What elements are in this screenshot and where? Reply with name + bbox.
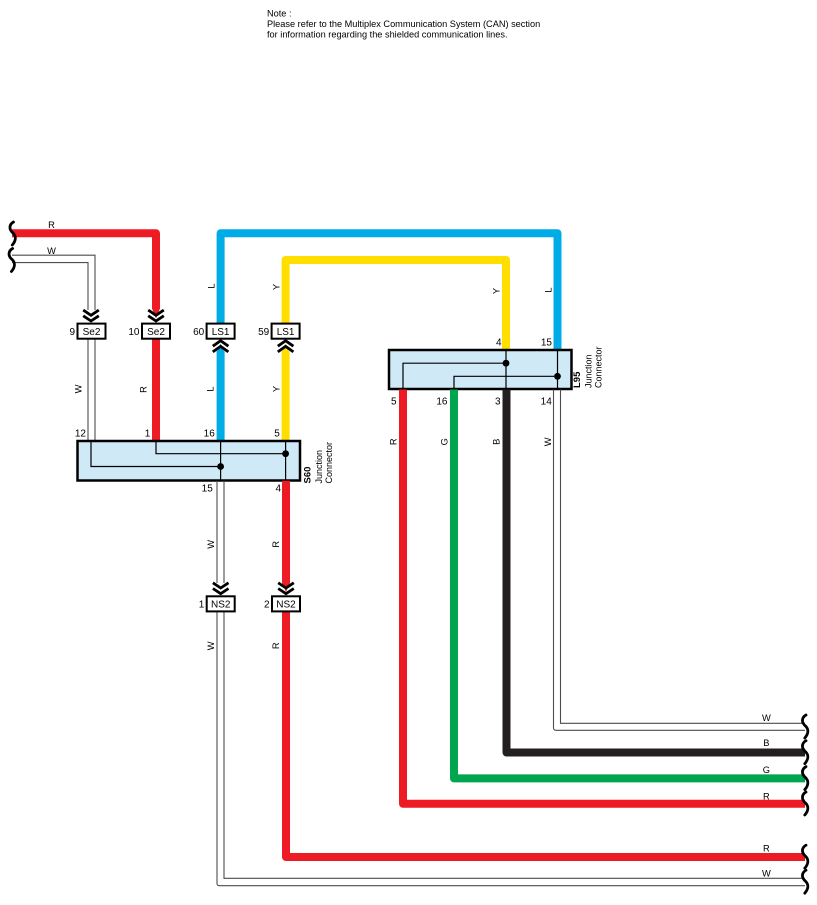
wire R main: left entry to Se2(10) <box>12 233 156 309</box>
wire Y: LS1(59) to S60 pin 5 <box>282 351 290 442</box>
svg-text:G: G <box>763 765 770 775</box>
svg-text:B: B <box>763 738 769 748</box>
svg-text:Please refer to the Multiplex: Please refer to the Multiplex Communicat… <box>267 19 540 29</box>
svg-text:R: R <box>389 438 399 445</box>
svg-text:R: R <box>48 220 55 230</box>
wire R tip at Se2(10) chevron <box>152 309 160 319</box>
svg-text:R: R <box>271 541 281 548</box>
junction connector S60: box <box>78 441 301 481</box>
svg-text:L: L <box>207 283 217 288</box>
svg-text:W: W <box>762 713 771 723</box>
svg-text:Note :: Note : <box>267 9 292 19</box>
svg-text:R: R <box>763 791 770 801</box>
connector 1 NS2: box <box>207 596 235 611</box>
svg-text:for information regarding the: for information regarding the shielded c… <box>267 30 508 40</box>
svg-text:Se2: Se2 <box>83 327 101 338</box>
svg-text:R: R <box>139 386 149 393</box>
S60 internal: pin 16 to pin 15 line <box>220 442 222 480</box>
connector 59 LS1: chevron up <box>278 341 294 352</box>
connector 2 NS2: chevron down <box>278 583 294 594</box>
squiggle left R <box>10 222 15 245</box>
L95 internal junction dot <box>503 360 510 367</box>
wire W shielded: left entry to Se2(9) <box>12 255 95 310</box>
svg-text:4: 4 <box>275 484 281 495</box>
svg-text:W: W <box>206 641 216 650</box>
connector 60 LS1: box <box>207 324 235 339</box>
S60 internal junction dot <box>282 450 289 457</box>
svg-text:14: 14 <box>541 397 553 408</box>
svg-text:1: 1 <box>199 600 205 611</box>
svg-text:S60: S60 <box>303 467 314 484</box>
S60 internal: pin 12 branch <box>91 442 221 467</box>
wire R: L95 pin 5 down, corner, exit right <box>403 390 805 804</box>
connector 9 Se2: box <box>78 324 106 339</box>
svg-text:W: W <box>47 246 56 256</box>
svg-text:5: 5 <box>391 397 397 408</box>
S60 internal junction dot <box>217 463 224 470</box>
svg-text:59: 59 <box>258 327 270 338</box>
wire R: NS2(2) down, bottom corner, exit right <box>286 612 805 858</box>
svg-text:10: 10 <box>128 327 140 338</box>
svg-text:W: W <box>762 868 771 878</box>
L95 internal junction dot <box>554 373 561 380</box>
svg-text:Y: Y <box>271 284 281 290</box>
svg-text:4: 4 <box>496 338 502 349</box>
squiggle right R2 <box>802 845 807 868</box>
L95 internal: pin 4 to pin 3 line <box>505 351 507 388</box>
svg-text:W: W <box>206 540 216 549</box>
L95 internal: pin 5 branch <box>403 363 506 388</box>
wire W: Se2(9) to S60 pin 12 <box>94 339 96 442</box>
connector 9 Se2: chevron down <box>83 310 99 321</box>
svg-text:R: R <box>271 642 281 649</box>
wire W: NS2(1) down, bottom corner, exit right <box>217 612 805 886</box>
connector 2 NS2: box <box>272 596 300 611</box>
svg-text:15: 15 <box>202 484 214 495</box>
connector 10 Se2: box <box>142 324 170 339</box>
svg-text:15: 15 <box>541 338 553 349</box>
svg-text:Se2: Se2 <box>147 327 165 338</box>
wire L (blue): LS1(60) up, across top, down to L95 pin 15 <box>221 233 558 350</box>
wire Y (yellow): LS1(59) up, across, down to L95 pin 4 <box>286 260 506 351</box>
svg-text:60: 60 <box>193 327 205 338</box>
note text <box>267 9 540 40</box>
svg-text:12: 12 <box>75 429 87 440</box>
wire W: L95 pin 14 down, corner, exit right <box>554 390 806 731</box>
svg-text:9: 9 <box>69 327 75 338</box>
connector 60 LS1: chevron up <box>213 341 229 352</box>
svg-text:B: B <box>492 439 502 445</box>
connector 1 NS2: chevron down <box>213 583 229 594</box>
svg-text:3: 3 <box>495 397 501 408</box>
svg-text:LS1: LS1 <box>277 327 295 338</box>
wire L: LS1(60) to S60 pin 16 <box>217 351 225 442</box>
wire R tip at NS2(2) chevron <box>282 583 290 592</box>
wire Y tip below LS1(59) chevron <box>282 344 290 353</box>
svg-text:L95: L95 <box>572 371 583 388</box>
svg-text:Junction: Junction <box>314 450 324 484</box>
wire R: Se2(10) to S60 pin 1 <box>152 339 160 442</box>
svg-text:R: R <box>763 844 770 854</box>
svg-text:LS1: LS1 <box>212 327 230 338</box>
svg-text:W: W <box>74 384 84 393</box>
svg-text:2: 2 <box>264 600 270 611</box>
svg-text:16: 16 <box>436 397 448 408</box>
connector 59 LS1: box <box>272 324 300 339</box>
svg-text:Y: Y <box>272 386 282 392</box>
wire R: S60 pin 4 down to NS2(2) <box>282 481 290 584</box>
squiggle right W2 <box>802 870 807 893</box>
svg-text:16: 16 <box>204 429 216 440</box>
wire W: S60 pin 15 down to NS2(1) <box>216 481 218 583</box>
squiggle right B <box>802 741 807 764</box>
svg-text:Y: Y <box>491 288 501 294</box>
svg-text:G: G <box>439 438 449 445</box>
squiggle left W <box>9 249 14 272</box>
squiggle right R <box>802 792 807 815</box>
svg-text:Connector: Connector <box>324 442 334 484</box>
wire L tip below LS1(60) chevron <box>217 344 225 353</box>
squiggle right G <box>802 767 807 790</box>
svg-text:NS2: NS2 <box>276 600 296 611</box>
squiggle right W1 <box>802 715 807 738</box>
L95 internal: pin 15 to pin 14 line <box>557 351 559 388</box>
S60 internal: pin 5 to pin 4 line <box>285 442 287 480</box>
junction connector L95: box <box>389 350 572 389</box>
connector 10 Se2: chevron down <box>148 310 164 321</box>
svg-text:Connector: Connector <box>593 346 603 388</box>
svg-text:L: L <box>543 287 553 292</box>
svg-text:NS2: NS2 <box>211 600 231 611</box>
S60 internal: pin 1 branch <box>156 442 286 454</box>
wire G: L95 pin 16 down, corner, exit right <box>454 390 805 779</box>
L95 internal: pin 16 branch <box>454 376 558 388</box>
svg-text:W: W <box>543 437 553 446</box>
svg-text:5: 5 <box>274 429 280 440</box>
svg-text:L: L <box>206 386 216 391</box>
svg-text:1: 1 <box>145 429 151 440</box>
wire B: L95 pin 3 down, corner, exit right <box>507 390 806 753</box>
svg-text:Junction: Junction <box>583 354 593 388</box>
